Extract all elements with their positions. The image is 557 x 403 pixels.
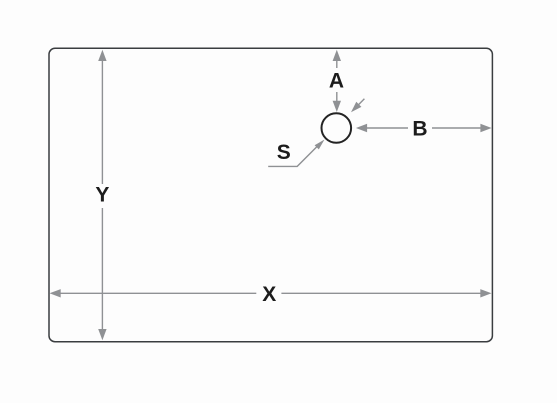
diagonal leader arrow (top-right of hole) xyxy=(351,99,364,112)
Y arrowhead up xyxy=(98,50,106,61)
A arrowhead up xyxy=(333,50,341,61)
svg-text:A: A xyxy=(329,70,344,93)
dimension A line xyxy=(333,50,341,112)
svg-text:S: S xyxy=(277,141,291,164)
svg-text:Y: Y xyxy=(95,184,109,207)
S leader line xyxy=(268,140,324,167)
Y arrowhead down xyxy=(98,329,106,340)
drain hole circle xyxy=(322,113,352,143)
dimension X line xyxy=(50,289,492,297)
dimension B line xyxy=(356,124,492,132)
X arrowhead right xyxy=(480,289,491,297)
svg-text:X: X xyxy=(262,283,276,306)
A arrowhead down xyxy=(333,101,341,112)
dimension Y line xyxy=(98,50,106,340)
svg-text:B: B xyxy=(412,118,427,141)
X arrowhead left xyxy=(50,289,61,297)
tray outline (rounded rectangle) xyxy=(49,48,492,341)
B arrowhead right xyxy=(480,124,491,132)
B arrowhead left xyxy=(356,124,367,132)
